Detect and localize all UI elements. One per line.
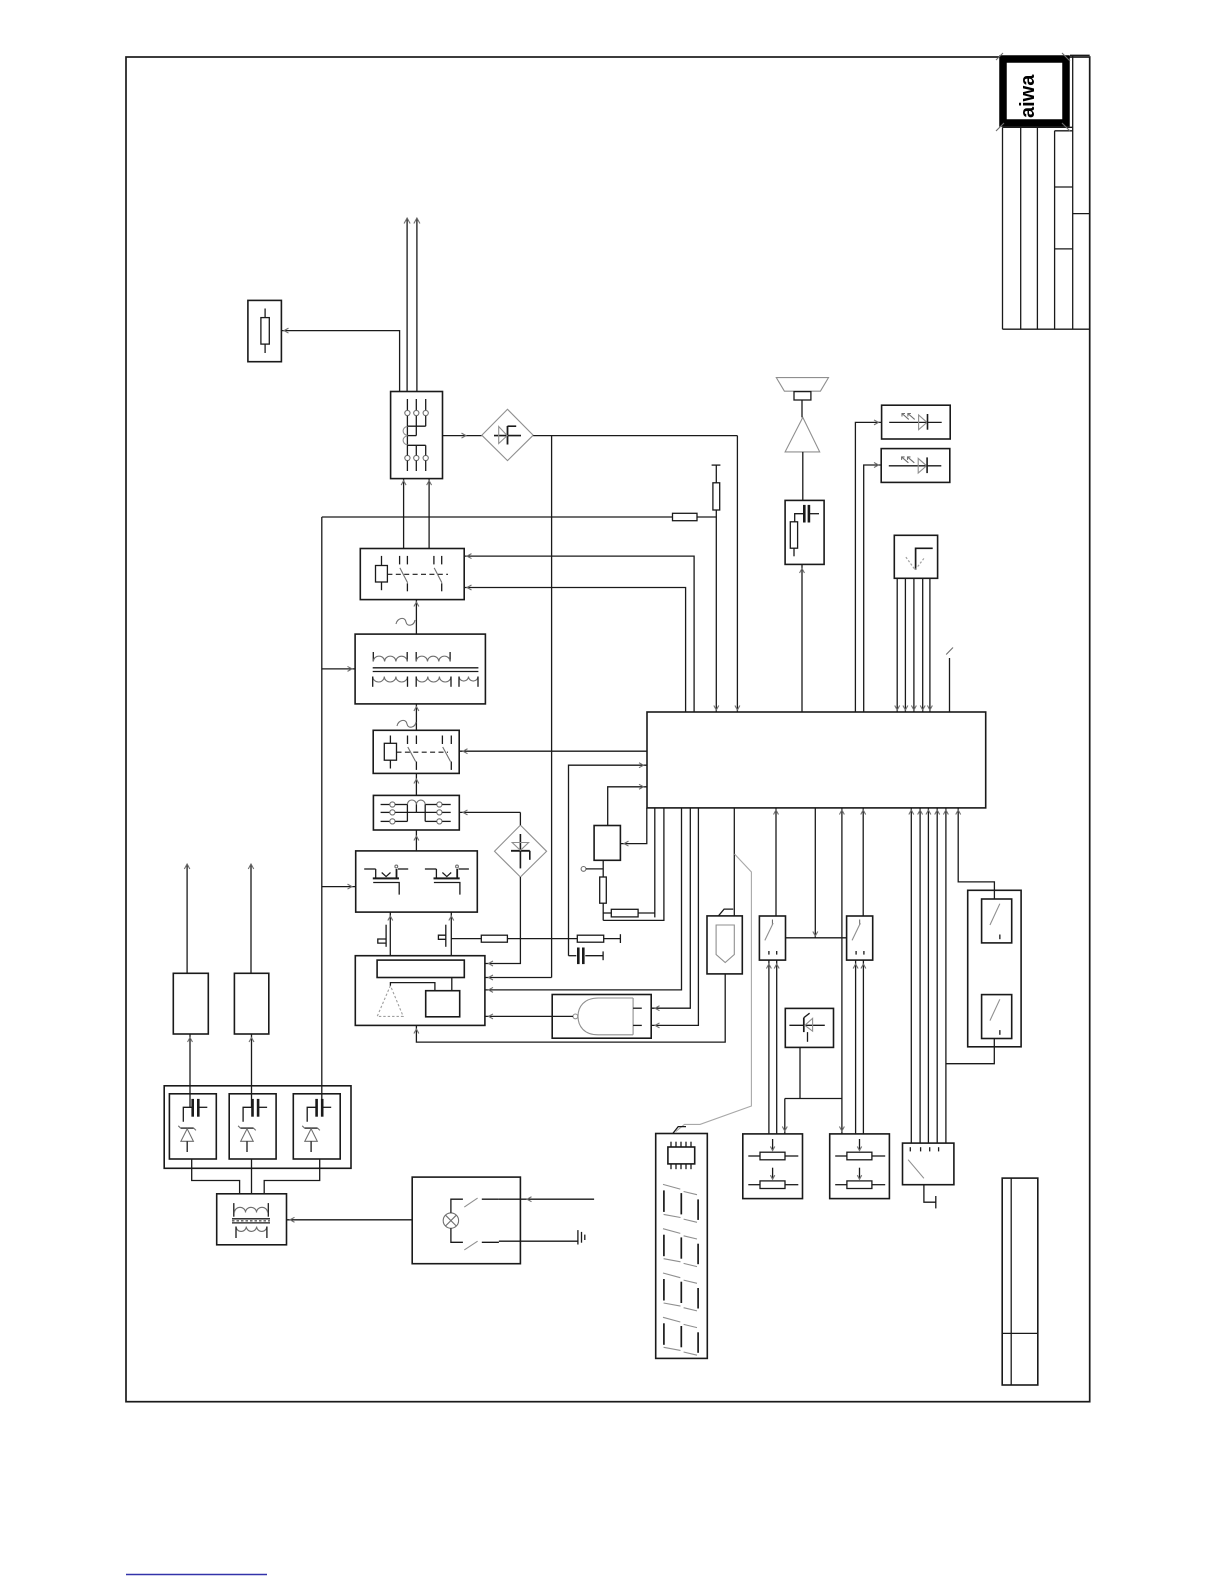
resistor R2: [577, 935, 620, 942]
wire U4 to U5: [620, 808, 646, 846]
resistor R3: [600, 877, 607, 920]
wire C5 to T2: [251, 1159, 253, 1194]
microcontroller U4: [647, 712, 986, 808]
transistor Q3 box: [785, 1008, 833, 1047]
connector block J2: [1002, 1178, 1038, 1385]
wire K1 to T1: [414, 600, 419, 635]
capacitor C4 zener box: [169, 1094, 216, 1159]
transistor Q3: [789, 1013, 824, 1042]
capacitor C5 zener box: [229, 1094, 276, 1159]
relay K2 coil: [384, 736, 396, 769]
wire U4 to SB: [861, 808, 866, 916]
gate stub Q1: [378, 925, 386, 947]
wire mains N: [414, 218, 420, 392]
wire Q2 to driver: [449, 912, 454, 956]
wire node R3 to U4: [603, 808, 664, 921]
wire K1 contact2 to U4: [464, 585, 685, 712]
wire U4 to SC pin3: [926, 808, 931, 1143]
wire U4 to RB2: [839, 808, 844, 1134]
resistor R5: [713, 483, 720, 510]
wire U4 to nand in1: [651, 808, 690, 1011]
switch SB box: [847, 916, 873, 960]
wire D1 output: [533, 435, 737, 437]
wire U4 to SC pin1: [909, 808, 914, 1143]
switch S3b box: [982, 995, 1012, 1039]
wire Q3 to resistor boxes: [782, 1047, 842, 1134]
relay K1 link: [387, 573, 448, 575]
wire D2 top: [519, 812, 521, 825]
rectifier D2 diode: [511, 834, 530, 868]
wire B1 to C4: [188, 1034, 193, 1107]
terminal circle: [581, 867, 603, 872]
wire C4 to T2: [192, 1159, 240, 1194]
wire left bus: [321, 517, 323, 1107]
capacitor C6 zener box: [293, 1094, 340, 1159]
AC symbol b: [397, 720, 416, 727]
wire S2 to Q1Q2: [414, 830, 419, 851]
breaker S1 contacts: [405, 399, 429, 471]
wire SB out1: [853, 960, 858, 1134]
switch SC box: [903, 1143, 954, 1185]
wire S1 to K1 a: [401, 479, 406, 549]
sensor B1 box: [173, 973, 208, 1034]
wire U4 to SC pin2: [918, 808, 923, 1143]
relay K2 link: [397, 751, 449, 753]
driver U2 box: [355, 956, 485, 1026]
wire speaker to amp: [801, 400, 803, 417]
IR receiver U7 symbol: [906, 548, 933, 570]
wire U4 to nand in2: [651, 808, 698, 1028]
title block logo frame: [1003, 59, 1066, 123]
wire lamp to ground: [499, 1240, 578, 1242]
nand U3 input stubs: [633, 1008, 642, 1025]
wire U4 pin2 down: [654, 808, 656, 918]
wire lamp to T2: [287, 1217, 413, 1222]
transformer T1 windings: [373, 652, 479, 687]
wire T1 to K2: [414, 704, 419, 730]
rectifier D1 diamond: [482, 409, 533, 460]
wire D1branch to driver: [485, 975, 552, 980]
wire U4 to LED D4: [864, 463, 882, 712]
wire lamp sense: [499, 1197, 594, 1202]
wire B2 up: [248, 864, 254, 973]
resistor R1: [481, 935, 577, 942]
wire S1 to rectifier D1: [443, 433, 482, 438]
switch S3a box: [982, 899, 1012, 943]
wire bus to T1: [322, 666, 355, 671]
wire B1 up: [184, 864, 190, 973]
relay K2 contacts: [408, 736, 452, 770]
wire amp to C3: [802, 452, 804, 501]
wire S1 to K1 b: [427, 479, 432, 549]
fuse F1 box: [248, 300, 282, 361]
wire K2 to S2: [414, 773, 419, 795]
wire driver to pentagon: [414, 974, 725, 1042]
link underline: [126, 1574, 267, 1576]
wire U7 pin3 to U4: [911, 578, 916, 712]
switch SC lever: [908, 1160, 924, 1179]
relay K1 coil: [376, 556, 388, 590]
resistor box RB1: [743, 1134, 803, 1199]
wire C3 to U4: [800, 564, 805, 712]
cap box C3 R7: [785, 500, 824, 564]
amplifier A1: [785, 417, 820, 452]
wire U7 pin2 to U4: [903, 578, 908, 712]
wire fuse to breaker: [281, 328, 399, 391]
wire U4 to SA: [774, 808, 779, 916]
gate stub Q2: [438, 925, 445, 947]
driver U2 sub block: [426, 991, 460, 1017]
wire SA out1: [766, 960, 771, 1134]
selector S2 box: [373, 795, 459, 830]
fuse F1: [261, 309, 269, 354]
relay K1 box: [360, 549, 464, 600]
nand U3 box: [552, 995, 651, 1039]
display DS1 box: [656, 1127, 708, 1359]
wire U4 to LED D3: [855, 420, 881, 712]
capacitor bank box: [164, 1086, 351, 1169]
ground: [578, 1230, 585, 1244]
wire U7 pin1 to U4: [895, 578, 900, 712]
display driver IC U6: [668, 1142, 695, 1170]
IR receiver U7 box: [894, 535, 937, 578]
selector S2 contacts: [381, 800, 451, 824]
driver U2 pwm block: [377, 960, 464, 977]
rectifier D2 diamond: [495, 825, 547, 877]
lamp LP1: [443, 1213, 458, 1228]
transformer T1 box: [355, 634, 485, 704]
wire U4 to SC pin5: [943, 808, 948, 1143]
switch SA box: [759, 916, 785, 960]
relay K1 contacts: [400, 556, 442, 591]
relay K2 box: [373, 730, 459, 773]
wire Q1 to driver: [388, 912, 393, 956]
resistor R4: [603, 909, 655, 917]
wire S3 to node: [946, 1038, 994, 1064]
wire bus to mosfets: [322, 884, 356, 889]
wire U4 to SC pin4: [935, 808, 940, 1143]
wire U5 down: [602, 860, 604, 877]
lamp box L1: [412, 1177, 520, 1264]
circuit breaker S1 box: [391, 392, 443, 479]
title block table: [1003, 55, 1090, 329]
connector J1 pentagon: [716, 925, 734, 963]
wire B2 to C5: [249, 1034, 254, 1107]
transformer T2 windings: [232, 1203, 270, 1238]
switch SC pins: [910, 1147, 938, 1151]
resistor box RB2: [830, 1134, 890, 1199]
op-amp U2a: [377, 986, 403, 1017]
wire SC ground stub: [924, 1185, 936, 1209]
wire bus vertical: [715, 465, 717, 712]
regulator U5 box: [594, 826, 620, 861]
wire U7 pin4 to U4: [920, 578, 925, 712]
LED D4 box: [881, 449, 950, 483]
stub NC pin: [946, 648, 953, 713]
wire U4 to S3: [956, 808, 995, 899]
wire C6 to T2: [264, 1159, 320, 1194]
wire SA out2: [774, 960, 779, 1134]
wire node D1 branch down: [551, 436, 553, 978]
wire K1 contact1 to U4: [464, 554, 694, 712]
switch S3 outer box: [968, 890, 1021, 1047]
wire SA to SB: [786, 937, 847, 939]
logo corner marks: [996, 53, 1070, 131]
transformer T2 box: [217, 1194, 287, 1245]
svg-text:aiwa: aiwa: [1017, 74, 1039, 118]
lamp switch top: [451, 1198, 499, 1213]
wire U4 to SA-SB node: [813, 808, 818, 938]
wire U4 to driver: [485, 808, 682, 992]
AC symbol a: [396, 618, 415, 625]
wire smallbox top to U4: [608, 784, 647, 825]
connector J1 box: [707, 909, 742, 974]
resistor R6: [673, 513, 717, 520]
wire D2 to driver: [485, 877, 521, 966]
wire cap branch to U4: [569, 763, 648, 956]
wire S2 to D2: [459, 810, 520, 815]
mosfet Q1: [364, 865, 408, 895]
rectifier D1 diode: [494, 426, 521, 445]
wire U7 pin5 to U4: [927, 578, 932, 712]
wire bus top: [712, 465, 721, 710]
LED D3 box: [882, 405, 951, 439]
wire D1 to U4: [735, 436, 740, 712]
driver U2 links: [390, 978, 451, 991]
wire SB out2: [861, 960, 866, 1134]
display DS1 digits: [663, 1184, 698, 1355]
wire nand out to driver: [485, 1014, 573, 1019]
wire bus horizontal: [322, 516, 673, 518]
mosfet Q2: [425, 865, 469, 895]
nand U3 gate: [573, 998, 633, 1035]
terminal bar R2: [619, 934, 621, 943]
sensor B2 box: [234, 973, 268, 1034]
wire U4 to J1: [733, 808, 735, 916]
speaker SP1: [776, 378, 828, 400]
lamp switch bottom: [451, 1228, 499, 1250]
wire mains L: [404, 218, 410, 392]
gray wire to display: [676, 854, 752, 1132]
wire K2 to U4: [459, 749, 647, 754]
capacitor C2: [569, 948, 604, 965]
wire snubber: [451, 938, 481, 940]
mosfet box Q1 Q2: [356, 851, 478, 912]
breaker S1 linkage: [403, 426, 426, 445]
